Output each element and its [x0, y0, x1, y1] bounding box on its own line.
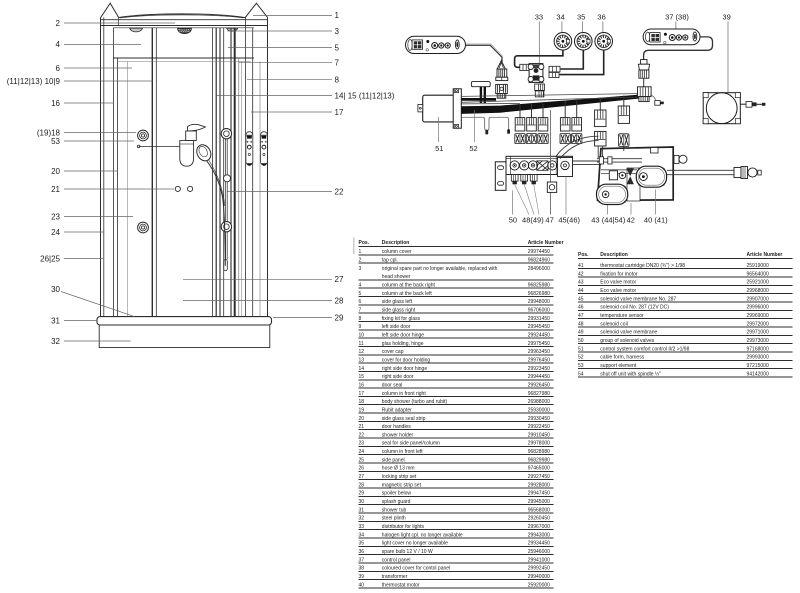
sensor drop B	[507, 117, 508, 129]
svg-text:52: 52	[469, 144, 477, 153]
leader 39	[727, 22, 729, 93]
control panel A (cpl. 51)	[406, 36, 466, 53]
leader line 25/26	[64, 258, 103, 260]
head shower (3)	[178, 28, 192, 33]
halogen light 34 (34/35/36)	[554, 33, 572, 51]
svg-text:29967000: 29967000	[528, 524, 550, 530]
svg-text:14| 15 (11|12|13): 14| 15 (11|12|13)	[335, 91, 395, 100]
hand shower hose	[207, 161, 226, 266]
svg-text:18: 18	[359, 399, 365, 405]
inlet fitting right of frame	[674, 155, 679, 163]
connector (harness top socket)	[496, 84, 508, 98]
svg-text:35: 35	[577, 12, 585, 21]
column cover 1 (right cap)	[245, 3, 267, 17]
svg-text:29972000: 29972000	[747, 321, 769, 327]
svg-text:48: 48	[578, 321, 584, 327]
wire dial 36	[560, 50, 604, 75]
svg-text:29945450: 29945450	[528, 324, 550, 330]
harness drop wire	[576, 101, 578, 118]
svg-text:43 (44|54): 43 (44|54)	[591, 216, 626, 225]
leader line 29	[273, 317, 332, 319]
svg-text:25930000: 25930000	[528, 407, 550, 413]
svg-text:40 (41): 40 (41)	[644, 216, 668, 225]
leader 50	[512, 191, 514, 215]
leader 34	[561, 22, 563, 33]
thermostat cartridge 41 body	[609, 171, 617, 180]
svg-text:29975450: 29975450	[528, 341, 550, 347]
svg-text:53: 53	[578, 363, 584, 369]
leader line 17	[251, 111, 332, 113]
svg-text:26: 26	[359, 466, 365, 472]
svg-text:50: 50	[578, 338, 584, 344]
svg-text:27: 27	[335, 275, 344, 284]
svg-text:23: 23	[359, 441, 365, 447]
halogen light 35 (34/35/36)	[575, 33, 593, 51]
svg-text:8: 8	[335, 76, 340, 85]
svg-text:25: 25	[359, 457, 365, 463]
svg-text:15: 15	[359, 374, 365, 380]
svg-text:29969000: 29969000	[747, 313, 769, 319]
halogen light left (34)	[130, 28, 143, 32]
svg-text:side glass seal strip: side glass seal strip	[382, 416, 426, 422]
svg-text:45: 45	[578, 296, 584, 302]
connector D1b	[595, 131, 606, 146]
svg-text:6: 6	[56, 64, 61, 73]
svg-text:seal for side panel/column: seal for side panel/column	[382, 441, 440, 447]
svg-text:Article Number: Article Number	[747, 252, 783, 258]
leader line 30	[61, 292, 134, 317]
svg-text:53: 53	[51, 137, 60, 146]
leader line 4	[64, 43, 141, 45]
rail mount lower	[221, 222, 231, 232]
svg-text:left side door hinge: left side door hinge	[382, 332, 424, 338]
svg-text:51: 51	[578, 346, 584, 352]
svg-text:34: 34	[359, 532, 365, 538]
leader line 3	[227, 30, 332, 32]
svg-text:29943000: 29943000	[528, 532, 550, 538]
right door frame column	[230, 28, 232, 317]
harness end connector (panel B socket)	[638, 87, 652, 102]
svg-text:50: 50	[509, 216, 517, 225]
leader line 20	[64, 170, 117, 172]
harness drop wire	[531, 104, 533, 118]
svg-text:96828980: 96828980	[528, 449, 550, 455]
svg-text:spare bulb 12 V / 10 W: spare bulb 12 V / 10 W	[382, 549, 433, 555]
svg-text:10: 10	[359, 332, 365, 338]
wire panel A to connector	[466, 45, 502, 62]
connector lead 4	[560, 118, 570, 131]
pipe coupling	[734, 168, 741, 178]
right door glass edges (14/15)	[212, 28, 214, 317]
svg-text:29996000: 29996000	[747, 305, 769, 311]
svg-text:locking strip set: locking strip set	[382, 474, 417, 480]
leader line 28	[183, 300, 332, 302]
leader 42	[630, 203, 632, 215]
svg-text:Eco valve motor: Eco valve motor	[600, 288, 636, 294]
svg-text:25921000: 25921000	[747, 280, 769, 286]
svg-text:12: 12	[359, 349, 365, 355]
svg-text:shower holder: shower holder	[382, 432, 414, 438]
svg-text:31: 31	[359, 507, 365, 513]
svg-text:17: 17	[359, 391, 365, 397]
48(49) fan leader lines	[515, 185, 539, 215]
svg-text:7: 7	[335, 59, 340, 68]
svg-text:37 (38): 37 (38)	[665, 12, 689, 21]
door handle 21 left	[175, 186, 180, 191]
solenoid valve body	[528, 161, 537, 170]
connector solenoid lead 3	[538, 118, 548, 131]
svg-text:22: 22	[359, 432, 365, 438]
valve at right of manifold	[548, 161, 557, 170]
svg-text:column at the back right: column at the back right	[382, 282, 436, 288]
svg-text:cable form, harness: cable form, harness	[600, 355, 644, 361]
svg-text:cover for door holding: cover for door holding	[382, 357, 431, 363]
outlet pipe right	[667, 170, 734, 174]
svg-text:Rubit adapter: Rubit adapter	[382, 407, 412, 413]
svg-text:38: 38	[359, 566, 365, 572]
svg-text:29941000: 29941000	[528, 557, 550, 563]
svg-text:Pos.: Pos.	[578, 252, 589, 258]
holder arm 53	[139, 145, 190, 147]
body shower jet 18 lower	[138, 222, 149, 233]
svg-text:29260450: 29260450	[528, 516, 550, 522]
mounting plate 50	[495, 162, 506, 191]
svg-text:46: 46	[578, 305, 584, 311]
svg-text:7: 7	[359, 307, 362, 313]
harness drop wire	[564, 101, 566, 118]
hand shower 22 head	[194, 142, 214, 163]
wire dial 34 to west plug	[515, 50, 563, 67]
motor 39	[703, 93, 740, 124]
leader 35	[582, 22, 584, 33]
right manifold block	[558, 158, 573, 177]
svg-text:magnetic strip set: magnetic strip set	[382, 482, 422, 488]
control panel B (37/38)	[643, 29, 700, 45]
leader line 23	[64, 216, 133, 218]
svg-text:2: 2	[359, 257, 362, 263]
svg-text:36: 36	[597, 12, 605, 21]
harness drop wire	[519, 104, 521, 118]
control panel 37/38 in cabin 2	[261, 132, 268, 166]
connector panel B plug	[638, 60, 649, 79]
leader 47 (temperature sensor wire)	[549, 110, 551, 215]
svg-text:29963450: 29963450	[528, 349, 550, 355]
svg-text:96829980: 96829980	[528, 457, 550, 463]
svg-text:4: 4	[56, 40, 61, 49]
solenoid plug X3	[538, 134, 548, 144]
sensor wire drop A	[483, 117, 490, 130]
svg-text:29971000: 29971000	[747, 330, 769, 336]
svg-text:51: 51	[435, 144, 443, 153]
svg-text:9: 9	[359, 324, 362, 330]
dispenser pump body 19	[186, 131, 197, 141]
rail mount upper	[221, 129, 231, 139]
svg-text:right side door: right side door	[382, 374, 414, 380]
svg-text:solenoid valve membrane No. 28: solenoid valve membrane No. 287	[600, 296, 676, 302]
body shower jet 18 upper	[138, 130, 149, 141]
svg-text:29944450: 29944450	[528, 374, 550, 380]
group of solenoid valves 50 manifold	[506, 156, 573, 174]
svg-text:28496000: 28496000	[528, 266, 550, 272]
svg-text:29927450: 29927450	[528, 474, 550, 480]
solenoid valve body	[510, 161, 519, 170]
svg-text:96827980: 96827980	[528, 391, 550, 397]
svg-text:29: 29	[359, 491, 365, 497]
svg-text:light cover no longer availabl: light cover no longer available	[382, 541, 448, 547]
svg-text:29: 29	[335, 313, 344, 322]
svg-text:solenoid coil: solenoid coil	[600, 321, 628, 327]
valve outlet stub	[511, 175, 518, 182]
svg-text:door seal: door seal	[382, 382, 403, 388]
svg-text:35: 35	[359, 541, 365, 547]
svg-text:22: 22	[335, 187, 344, 196]
svg-text:29992450: 29992450	[528, 566, 550, 572]
side glass frame top (6/7)	[113, 57, 254, 59]
svg-text:column at the back left: column at the back left	[382, 291, 433, 297]
svg-text:temperature sensor: temperature sensor	[600, 313, 644, 319]
svg-text:13: 13	[359, 357, 365, 363]
svg-text:6: 6	[359, 299, 362, 305]
svg-text:41: 41	[578, 263, 584, 269]
inner glass frame right (5/7)	[238, 58, 240, 317]
wire dial 35	[561, 50, 584, 69]
svg-text:29978000: 29978000	[528, 441, 550, 447]
svg-text:40: 40	[359, 582, 365, 588]
svg-text:Pos.: Pos.	[359, 240, 370, 246]
svg-text:26|25: 26|25	[40, 254, 60, 263]
solenoid plug X1	[515, 134, 525, 144]
transformer 51	[418, 89, 461, 128]
harness upper lines	[462, 93, 649, 96]
svg-text:96826980: 96826980	[528, 291, 550, 297]
svg-text:splash guard: splash guard	[382, 499, 411, 505]
solenoid plug D2b	[619, 134, 629, 147]
svg-text:side panel: side panel	[382, 457, 405, 463]
svg-text:23: 23	[51, 212, 60, 221]
svg-text:36: 36	[359, 549, 365, 555]
wire D2 to frame	[623, 146, 625, 151]
svg-text:30: 30	[359, 499, 365, 505]
drop to valve connector D1	[599, 98, 601, 110]
svg-text:tap cpl.: tap cpl.	[382, 257, 398, 263]
cap side stubs	[118, 17, 120, 25]
svg-text:29910450: 29910450	[528, 432, 550, 438]
svg-text:28: 28	[335, 296, 344, 305]
svg-text:support element: support element	[600, 363, 636, 369]
leader line 6	[64, 67, 132, 69]
svg-text:29948000: 29948000	[528, 299, 550, 305]
leader line 5	[228, 47, 332, 49]
leader line 8	[247, 79, 332, 81]
leader line 53	[64, 140, 134, 142]
svg-text:transformer: transformer	[382, 574, 408, 580]
svg-text:right side door hinge: right side door hinge	[382, 366, 428, 372]
svg-text:steel plinth: steel plinth	[382, 516, 406, 522]
leader 45(46)	[565, 177, 567, 215]
svg-text:31: 31	[51, 316, 60, 325]
svg-text:39: 39	[359, 574, 365, 580]
leader 33	[538, 22, 540, 64]
connector dial 36 plug	[549, 72, 559, 77]
svg-text:29968000: 29968000	[747, 288, 769, 294]
leader 43	[607, 205, 609, 215]
temperature sensor wire (47) run	[462, 116, 508, 118]
distributor for lights 33	[528, 64, 544, 83]
svg-text:distributor for lights: distributor for lights	[382, 524, 425, 530]
leader line 9/10	[64, 80, 153, 82]
svg-text:29926450: 29926450	[528, 382, 550, 388]
svg-text:21: 21	[359, 424, 365, 430]
connector west plug	[520, 64, 530, 70]
svg-text:spoiler below: spoiler below	[382, 491, 412, 497]
svg-text:Article Number: Article Number	[528, 240, 564, 246]
upper pipe inside frame	[597, 159, 642, 162]
svg-text:20: 20	[359, 416, 365, 422]
svg-text:29922450: 29922450	[528, 424, 550, 430]
svg-text:96824960: 96824960	[528, 257, 550, 263]
wire panel B	[644, 37, 713, 60]
svg-text:column in front left: column in front left	[382, 449, 423, 455]
svg-text:97168000: 97168000	[747, 346, 769, 352]
svg-text:16: 16	[51, 99, 60, 108]
drop to valve connector D2	[623, 96, 625, 106]
svg-text:96706000: 96706000	[528, 307, 550, 313]
dispenser bottle 18	[180, 141, 194, 167]
hose end fitting	[224, 260, 228, 271]
leader 36	[602, 22, 604, 33]
solenoid plug X2	[526, 134, 536, 144]
svg-text:side glass right: side glass right	[382, 307, 416, 313]
svg-text:fixation for motor: fixation for motor	[600, 271, 638, 277]
connector solenoid lead 2	[527, 118, 537, 131]
middle pipe to motor	[601, 170, 637, 174]
svg-text:24: 24	[359, 449, 365, 455]
svg-text:29976450: 29976450	[528, 357, 550, 363]
shower tub 31	[97, 317, 272, 325]
svg-text:control panel: control panel	[382, 557, 411, 563]
svg-text:thermostat motor: thermostat motor	[382, 582, 420, 588]
svg-text:head shower: head shower	[382, 274, 411, 280]
svg-text:49: 49	[578, 330, 584, 336]
roof band lines	[101, 19, 268, 21]
leader line 22	[228, 191, 333, 193]
leader line 24	[64, 231, 105, 233]
svg-text:97465000: 97465000	[528, 466, 550, 472]
svg-text:30: 30	[51, 285, 60, 294]
connector solenoid lead 1	[515, 118, 525, 131]
svg-text:54: 54	[578, 371, 584, 377]
svg-text:control system comfort control: control system comfort control II/2 >1/9…	[600, 346, 689, 352]
svg-text:column cover: column cover	[382, 249, 412, 255]
leader 37/38	[675, 22, 677, 30]
steel plinth 32	[99, 325, 270, 348]
svg-text:1: 1	[335, 11, 340, 20]
door handle 21 right	[188, 186, 193, 191]
svg-text:5: 5	[335, 43, 340, 52]
svg-text:47: 47	[578, 313, 584, 319]
svg-text:52: 52	[578, 355, 584, 361]
svg-text:fixing kit for glass: fixing kit for glass	[382, 316, 421, 322]
svg-text:25919000: 25919000	[747, 263, 769, 269]
leader line 31	[64, 320, 98, 322]
svg-text:29973000: 29973000	[747, 338, 769, 344]
svg-text:25946000: 25946000	[528, 549, 550, 555]
svg-text:32: 32	[359, 516, 365, 522]
svg-text:hose Ø 13 mm: hose Ø 13 mm	[382, 466, 415, 472]
connector D2	[618, 106, 629, 123]
thermostat frame 40(41)	[598, 147, 674, 200]
svg-text:29934450: 29934450	[528, 541, 550, 547]
svg-text:(11|12|13) 10|9: (11|12|13) 10|9	[7, 77, 61, 86]
svg-text:2: 2	[56, 19, 61, 28]
svg-text:27: 27	[359, 474, 365, 480]
svg-text:original spare part no longer: original spare part no longer available,…	[382, 266, 498, 272]
solenoid valve body	[520, 161, 529, 170]
pipes from manifold to thermostat	[556, 136, 599, 156]
svg-text:29924450: 29924450	[528, 332, 550, 338]
svg-text:19: 19	[359, 407, 365, 413]
leader 51	[438, 117, 440, 142]
solenoid plug X4	[560, 134, 570, 144]
svg-text:Eco valve motor: Eco valve motor	[600, 280, 636, 286]
svg-text:39: 39	[722, 12, 730, 21]
leader line 2	[64, 22, 175, 24]
Eco valve motor 43 (44|54)	[597, 184, 628, 204]
svg-text:door handles: door handles	[382, 424, 411, 430]
svg-text:solenoid valve membrane: solenoid valve membrane	[600, 330, 657, 336]
svg-text:96568000: 96568000	[528, 507, 550, 513]
svg-text:97215000: 97215000	[747, 363, 769, 369]
svg-text:3: 3	[359, 266, 362, 272]
svg-text:11: 11	[359, 341, 364, 347]
valve bowtie fitting	[627, 168, 634, 184]
cable harness 52 main band	[462, 95, 640, 114]
svg-text:29993000: 29993000	[747, 355, 769, 361]
svg-text:33: 33	[535, 12, 543, 21]
svg-text:17: 17	[335, 108, 344, 117]
svg-text:29923450: 29923450	[528, 366, 550, 372]
solenoid coil hatched (46)	[537, 161, 548, 170]
svg-text:94142000: 94142000	[747, 371, 769, 377]
svg-text:shut off unit with spindle ½": shut off unit with spindle ½"	[600, 370, 661, 377]
svg-text:29928000: 29928000	[528, 482, 550, 488]
svg-text:glas holding, hinge: glas holding, hinge	[382, 341, 424, 347]
svg-text:20: 20	[51, 167, 60, 176]
svg-text:34: 34	[556, 12, 564, 21]
svg-text:thermostat cartridge DN20 (¾"): thermostat cartridge DN20 (¾") > 1/98	[600, 263, 685, 269]
motor 39 power cord	[740, 103, 746, 105]
svg-text:29945000: 29945000	[528, 499, 550, 505]
svg-text:42: 42	[627, 216, 635, 225]
small plug right of harness	[655, 101, 660, 106]
parts table 2 (pos 41-54)	[578, 252, 793, 377]
left door hinge column (10/11)	[151, 28, 153, 317]
svg-text:45(46): 45(46)	[558, 216, 580, 225]
connector (panel A plug, crown)	[496, 61, 508, 81]
left front column (17/4) edges	[112, 28, 114, 317]
svg-text:37: 37	[359, 557, 365, 563]
solenoid plug X5	[572, 134, 582, 144]
valve outlet stub	[521, 175, 528, 182]
column cover 1 (left cap)	[101, 3, 119, 17]
svg-text:24: 24	[51, 228, 60, 237]
svg-text:column in front right: column in front right	[382, 391, 427, 397]
svg-text:29931450: 29931450	[528, 316, 550, 322]
support element (harness bracket)	[471, 82, 490, 87]
leader 52	[474, 110, 476, 142]
svg-text:25920000: 25920000	[528, 582, 550, 588]
connector D1	[595, 110, 606, 127]
